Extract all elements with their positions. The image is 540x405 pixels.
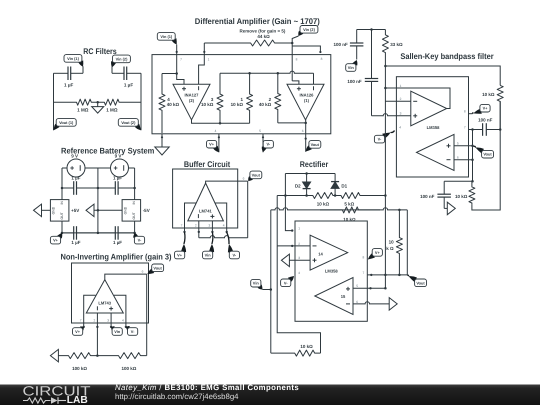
svg-text:1 MΩ: 1 MΩ <box>106 108 118 113</box>
wire diode top left drop <box>285 174 292 231</box>
pin dot V- diff <box>262 136 264 138</box>
wire rail far left <box>270 210 272 353</box>
wire V+ pin sallen <box>469 113 473 115</box>
junction below box <box>471 180 474 183</box>
svg-text:GND: GND <box>52 206 56 214</box>
wire resistor tops row <box>220 71 314 73</box>
svg-text:Buffer Circuit: Buffer Circuit <box>184 160 231 169</box>
svg-text:V+: V+ <box>375 250 381 255</box>
svg-text:Vin (1): Vin (1) <box>67 56 80 61</box>
IC box LM358 rect <box>295 221 367 321</box>
pin dot 44k wire at box edge <box>203 51 205 53</box>
svg-text:6: 6 <box>302 129 304 133</box>
flag Vin (2) <box>111 55 130 67</box>
wire left rail RC <box>53 73 55 130</box>
svg-text:RC Filters: RC Filters <box>83 47 117 56</box>
junction feedback node <box>384 87 387 90</box>
resistor 10 kOhm gnd leg <box>469 181 475 204</box>
svg-text:1: 1 <box>208 58 210 62</box>
svg-text:Vout: Vout <box>483 152 492 157</box>
junction bottom mid <box>97 232 100 235</box>
wire 44k left drop to minus input <box>199 43 205 84</box>
footer bar <box>0 385 540 405</box>
wire reg1 out <box>61 221 63 233</box>
svg-text:10 kΩ: 10 kΩ <box>482 92 495 97</box>
resistor R5 44 kOhm <box>204 40 292 46</box>
svg-text:3: 3 <box>107 319 109 323</box>
wire Vin2 branch to pin 8 <box>292 46 320 52</box>
svg-text:(2): (2) <box>189 98 195 103</box>
svg-text:Sallen-Key bandpass filter: Sallen-Key bandpass filter <box>400 52 494 61</box>
pin dot buffer plus <box>211 231 213 233</box>
pin dot buffer minus <box>198 231 200 233</box>
capacitor C2 1uF right RC <box>112 67 141 81</box>
wire buffer plus stub <box>211 221 213 232</box>
svg-text:6: 6 <box>356 300 358 304</box>
wire plus row op2 <box>454 145 473 147</box>
svg-text:Differential Amplifier (Gain ~: Differential Amplifier (Gain ~ 1707) <box>195 17 320 26</box>
flag Vin buffer <box>203 232 215 259</box>
pin dot noninv vminus <box>125 326 127 328</box>
junction 33k bottom <box>384 65 387 68</box>
voltage regulator +5V box <box>50 200 69 222</box>
junction R1 top <box>248 72 251 75</box>
resistor R left 1 Mohm <box>54 99 98 105</box>
wire to plus input op1 <box>372 114 411 116</box>
wire from Vin (1) flag <box>82 66 84 73</box>
wire mid rail battery <box>97 168 99 233</box>
flag V+ sallen <box>473 104 491 113</box>
svg-text:7: 7 <box>181 224 183 228</box>
wire noninv output to Vout <box>105 274 147 280</box>
resistor R right 1 Mohm <box>98 99 141 105</box>
flag Vin noninv <box>111 326 122 335</box>
svg-text:4: 4 <box>223 224 225 228</box>
svg-text:7: 7 <box>363 271 365 275</box>
svg-text:10 kΩ: 10 kΩ <box>201 102 214 107</box>
flag V+ buffer <box>175 232 187 259</box>
svg-text:7: 7 <box>80 319 82 323</box>
footer author line <box>115 383 299 392</box>
wire apex INA126 down to Vout <box>305 118 307 152</box>
wire top rail right <box>385 66 500 85</box>
wire buffer feedback right <box>247 181 249 238</box>
junction plus op15 end <box>384 287 387 290</box>
battery B2 9V <box>111 159 129 177</box>
wire supply row right <box>367 274 407 276</box>
capacitor 1uF bottom right <box>98 226 135 240</box>
wire to minus input op1 <box>385 100 410 102</box>
svg-text:100 nF: 100 nF <box>478 117 493 122</box>
op-amp LM358A sallen <box>411 91 447 126</box>
svg-text:LAB: LAB <box>67 395 88 405</box>
svg-text:10 kΩ: 10 kΩ <box>231 102 244 107</box>
wire diode top row <box>285 173 335 175</box>
wire output row B <box>278 122 306 124</box>
wire R4 top to plus node <box>162 73 177 75</box>
diode D2 <box>303 182 311 189</box>
resistor 100 kOhm right <box>97 353 146 359</box>
svg-text:4: 4 <box>298 271 300 275</box>
IC box LM358 sallen <box>396 77 468 177</box>
resistor 100 kOhm left <box>58 353 97 359</box>
wire D1 vertical <box>334 174 336 196</box>
pin dot noninv vplus <box>83 326 85 328</box>
wire output row A <box>192 120 250 124</box>
svg-text:LM743: LM743 <box>98 301 111 306</box>
wire minus row op14 <box>277 245 310 247</box>
svg-text:5: 5 <box>356 284 358 288</box>
svg-text:(1): (1) <box>304 98 310 103</box>
svg-text:40 kΩ: 40 kΩ <box>259 102 272 107</box>
wire buffer supply left jog <box>185 203 197 232</box>
flag Vin (1) diff <box>157 33 176 45</box>
junction bottom right <box>133 232 136 235</box>
svg-text:Vin (1): Vin (1) <box>160 34 173 39</box>
svg-text:4: 4 <box>215 129 217 133</box>
junction RC mid <box>96 101 99 104</box>
wire buffer supply right jog <box>215 203 227 232</box>
svg-text:7: 7 <box>180 58 182 62</box>
svg-text:33 kΩ: 33 kΩ <box>390 42 403 47</box>
footer url line <box>115 392 239 401</box>
svg-text:5 kΩ: 5 kΩ <box>344 202 354 207</box>
resistor 10 kOhm right top <box>497 85 503 129</box>
svg-text:8: 8 <box>363 255 365 259</box>
flag Vout (1) <box>54 119 76 131</box>
flag Vin sallen <box>346 60 358 71</box>
svg-text:100 kΩ: 100 kΩ <box>121 366 136 371</box>
junction row2 b <box>305 194 308 197</box>
junction cap row right <box>133 187 136 190</box>
svg-text:1 µF: 1 µF <box>124 83 133 88</box>
svg-text:9 V: 9 V <box>115 154 122 159</box>
svg-text:k Ω: k Ω <box>386 246 394 251</box>
svg-text:LM741: LM741 <box>199 208 212 213</box>
junction row2 right <box>384 194 387 197</box>
svg-text:10 kΩ: 10 kΩ <box>317 202 330 207</box>
svg-text:10 kΩ: 10 kΩ <box>300 344 313 349</box>
ground arrow op15 minus <box>389 298 397 311</box>
junction noninv fb node <box>96 354 99 357</box>
svg-text:2: 2 <box>298 242 300 246</box>
svg-text:6: 6 <box>457 156 459 160</box>
junction row2 c <box>334 194 337 197</box>
svg-text:OUT: OUT <box>60 212 64 219</box>
wire minus row op15 <box>353 302 389 304</box>
junction Vin rect <box>270 288 273 291</box>
svg-text:100 nF: 100 nF <box>334 42 349 47</box>
pin dot Vout diff <box>305 138 307 140</box>
wire top node row <box>357 29 386 31</box>
wire reg2 out <box>134 221 136 233</box>
svg-text:Remove (for gain = 5): Remove (for gain = 5) <box>240 28 286 33</box>
junction bottom left <box>61 232 64 235</box>
flag V+ battery <box>50 233 62 244</box>
pin dot ref pin 8 <box>319 51 321 53</box>
wire D2 vertical <box>306 174 308 196</box>
svg-text:8: 8 <box>296 58 298 62</box>
op-amp LM741 buffer <box>188 183 224 221</box>
junction srow c <box>398 274 401 277</box>
resistor R4 40 kOhm <box>159 74 165 134</box>
svg-text:7: 7 <box>464 125 466 129</box>
svg-text:4: 4 <box>122 319 124 323</box>
svg-text:Vout (2): Vout (2) <box>121 120 136 125</box>
wire Vin1 vertical <box>176 45 178 74</box>
svg-text:4: 4 <box>399 126 401 130</box>
svg-text:V+: V+ <box>53 238 59 243</box>
svg-text:1: 1 <box>400 84 402 88</box>
resistor 10 kOhm rect right <box>396 210 402 275</box>
flag Vout sallen <box>474 146 494 158</box>
capacitor C1 1uF left RC <box>54 67 84 81</box>
wire noninv supply right jog <box>114 295 126 327</box>
wire bottom row battery <box>62 232 135 234</box>
op-amp LM358 14 <box>310 235 348 270</box>
svg-text:2: 2 <box>94 319 96 323</box>
svg-text:GND: GND <box>123 206 127 214</box>
op-amp LM358 15 <box>315 278 353 315</box>
capacitor 1uF top left <box>62 181 98 195</box>
junction mid rail gnd row <box>97 209 100 212</box>
IC box INA pair <box>152 55 331 134</box>
svg-text:Vin (2): Vin (2) <box>116 56 129 61</box>
wire gnd reg2 <box>94 209 122 211</box>
wire from Vin (2) flag <box>111 67 113 74</box>
pin dot buffer vminus <box>226 231 228 233</box>
svg-text:2: 2 <box>195 224 197 228</box>
junction R2 top <box>277 72 280 75</box>
wire buffer output to Vout <box>206 181 248 183</box>
wire jog to plus input INA126 <box>292 81 299 84</box>
svg-text:-5V: -5V <box>143 208 150 213</box>
wire pin stub V+ diff <box>218 134 220 153</box>
IC box LM741 buffer <box>173 169 238 228</box>
resistor R1 10 kOhm <box>247 73 253 123</box>
pin dot rail bottom <box>161 136 163 138</box>
op-amp U1 INA126 <box>287 84 324 120</box>
svg-text:IN: IN <box>132 201 136 205</box>
svg-text:1 µF: 1 µF <box>113 240 122 245</box>
flag V- rect <box>281 276 294 287</box>
flag V+ rect <box>368 249 383 260</box>
svg-text:Vin: Vin <box>253 281 260 286</box>
wire gnd reg1 <box>41 209 50 211</box>
svg-text:D1: D1 <box>341 183 347 188</box>
pin dot noninv minus <box>96 326 98 328</box>
svg-text:V+: V+ <box>75 329 81 334</box>
flag V- diff <box>262 140 274 152</box>
junction D2 top <box>305 172 308 175</box>
wire pin stub V- diff <box>262 134 264 153</box>
resistor 10 kOhm rect row2 <box>277 193 335 199</box>
CircuitLab logo text CIRCUIT <box>23 384 91 399</box>
flag Vout buffer <box>248 171 262 181</box>
pin dot op14 minus <box>291 245 293 247</box>
svg-text:Vin: Vin <box>114 329 121 334</box>
svg-text:8: 8 <box>464 110 466 114</box>
junction cap row mid <box>97 187 100 190</box>
capacitor 100nF feedback <box>469 123 501 136</box>
resistor 10 kOhm rect row3 <box>320 207 380 213</box>
svg-text:100 nF: 100 nF <box>420 194 435 199</box>
junction srow b <box>384 274 387 277</box>
svg-text:Vout: Vout <box>252 172 261 177</box>
ground arrow sallen <box>447 202 455 215</box>
svg-text:6: 6 <box>142 270 144 274</box>
svg-text:Vout: Vout <box>311 142 320 147</box>
svg-text:3: 3 <box>209 224 211 228</box>
capacitor 100nF ground leg <box>437 181 451 208</box>
pin dot buffer vplus <box>183 231 185 233</box>
wire minus input INA126 drop <box>313 73 315 84</box>
flag Vout rect <box>407 275 426 286</box>
wire plus row op15 <box>353 287 385 289</box>
wire sallen feedback rail <box>384 66 386 88</box>
wire sallen rail down to rect <box>384 88 386 288</box>
svg-text:1: 1 <box>298 227 300 231</box>
op-amp LM743 <box>86 280 123 313</box>
svg-text:10 kΩ: 10 kΩ <box>455 194 468 199</box>
wire minus row op2 <box>454 159 473 161</box>
wire right rail RC <box>140 73 142 130</box>
CircuitLab logo resistor-diode glyph <box>23 397 66 404</box>
svg-text:1 µF: 1 µF <box>71 240 80 245</box>
wire jog to plus input INA127 <box>177 74 184 85</box>
svg-text:V+: V+ <box>483 106 489 111</box>
flag Vout (2) <box>118 119 141 131</box>
svg-text:Vout: Vout <box>416 280 425 285</box>
svg-text:+5V: +5V <box>71 208 79 213</box>
wire noninv plus stub <box>110 313 112 327</box>
svg-text:LM358: LM358 <box>325 269 338 274</box>
wire Vin2 corner <box>292 36 298 81</box>
wire buffer minus stub <box>198 221 200 238</box>
svg-text:Non-Inverting Amplifier (gain: Non-Inverting Amplifier (gain 3) <box>60 252 171 261</box>
svg-text:D2: D2 <box>295 183 301 188</box>
svg-text:5: 5 <box>259 129 261 133</box>
svg-text:1 µF: 1 µF <box>64 83 73 88</box>
svg-text:44 kΩ: 44 kΩ <box>257 34 270 39</box>
svg-text:3: 3 <box>298 256 300 260</box>
junction R3 bottom <box>219 122 222 125</box>
ground arrow op14 plus <box>281 254 289 267</box>
svg-text:100 nF: 100 nF <box>347 79 362 84</box>
svg-text:10: 10 <box>389 239 395 244</box>
junction minus op2 <box>471 158 474 161</box>
svg-text:6: 6 <box>243 177 245 181</box>
svg-text:1 µF: 1 µF <box>113 175 122 180</box>
junction fb cap right <box>499 128 502 131</box>
flag V+ noninv <box>73 326 84 335</box>
junction 44k right end <box>291 42 294 45</box>
flag V- buffer <box>227 232 240 259</box>
flag V+ diff <box>207 140 219 152</box>
junction Vin1 plus node <box>175 72 178 75</box>
svg-text:INA127: INA127 <box>185 92 200 97</box>
svg-text:40 kΩ: 40 kΩ <box>167 102 180 107</box>
svg-text:Rectifier: Rectifier <box>300 160 329 169</box>
svg-text:Vin: Vin <box>205 253 212 258</box>
ground arrow reg1 <box>34 204 42 217</box>
svg-text:LM358: LM358 <box>427 125 440 130</box>
junction plus op2 <box>471 145 474 148</box>
op-amp U2 INA127 <box>173 84 210 120</box>
capacitor 100nF input <box>350 30 364 60</box>
ground arrow reg2 <box>86 204 94 217</box>
svg-text:1 MΩ: 1 MΩ <box>77 108 89 113</box>
svg-text:Vin (2): Vin (2) <box>303 27 316 32</box>
svg-text:2: 2 <box>400 97 402 101</box>
capacitor 100nF middle <box>365 30 378 116</box>
resistor R2 40 kOhm <box>275 73 281 123</box>
flag Vout noninv <box>147 264 163 274</box>
capacitor 1uF top right <box>98 181 135 195</box>
wire noninv feedback right <box>146 274 148 356</box>
pin dot rect pin topleft <box>291 229 293 231</box>
flag V- battery <box>133 233 144 244</box>
wire left rail battery <box>61 168 63 200</box>
junction apex INA126 <box>304 122 307 125</box>
wire feedback top <box>385 88 450 109</box>
flag Vin (1) <box>64 55 83 67</box>
wire rail to ground below box <box>161 134 163 147</box>
resistor R3 10 kOhm <box>217 73 223 123</box>
svg-text:Vout (1): Vout (1) <box>59 120 74 125</box>
svg-text:14: 14 <box>318 251 323 256</box>
svg-text:1 µF: 1 µF <box>71 175 80 180</box>
flag V- sallen <box>374 131 394 143</box>
ground RC filters <box>92 102 104 113</box>
flag Vout diff <box>306 141 321 152</box>
flag Vin rect <box>251 279 263 289</box>
pin dot noninv plus <box>110 326 112 328</box>
wire right rail down <box>472 101 500 210</box>
wire Vin rect to rail <box>263 289 271 291</box>
wire cap to ground arrow <box>444 207 447 209</box>
junction row3 10k tap <box>398 209 401 212</box>
flag Vin (2) diff <box>298 26 318 37</box>
svg-text:http://circuitlab.com/cw27j4e6: http://circuitlab.com/cw27j4e6sb8g4 <box>115 392 239 401</box>
battery B1 9V <box>67 159 85 177</box>
resistor 5 kOhm rect <box>335 193 385 199</box>
svg-text:100 kΩ: 100 kΩ <box>72 366 87 371</box>
svg-text:V+: V+ <box>209 142 215 147</box>
pin dot Vin1 at box edge <box>176 51 178 53</box>
CircuitLab logo text LAB <box>67 395 88 405</box>
wire right drop 407 <box>406 210 408 275</box>
junction top node <box>370 28 373 31</box>
junction row2 a <box>284 194 287 197</box>
svg-text:8: 8 <box>321 57 323 61</box>
resistor 33 kOhm <box>382 30 388 67</box>
ground below diff box <box>155 147 169 155</box>
diode D1 <box>331 182 339 189</box>
wire bottom loop <box>277 246 320 353</box>
ground arrow noninv <box>50 349 58 362</box>
svg-text:15: 15 <box>341 294 346 299</box>
wire mid vertical right of box <box>472 130 474 182</box>
wire rect row3 <box>271 208 408 210</box>
wire battery row <box>62 167 135 169</box>
pin dot V+ diff <box>218 136 220 138</box>
wire buffer feedback bottom <box>199 236 248 238</box>
junction fb cap left <box>471 128 474 131</box>
wire rail left minus <box>276 196 278 246</box>
wire plus row op14 <box>289 259 310 261</box>
svg-text:V+: V+ <box>177 253 183 258</box>
